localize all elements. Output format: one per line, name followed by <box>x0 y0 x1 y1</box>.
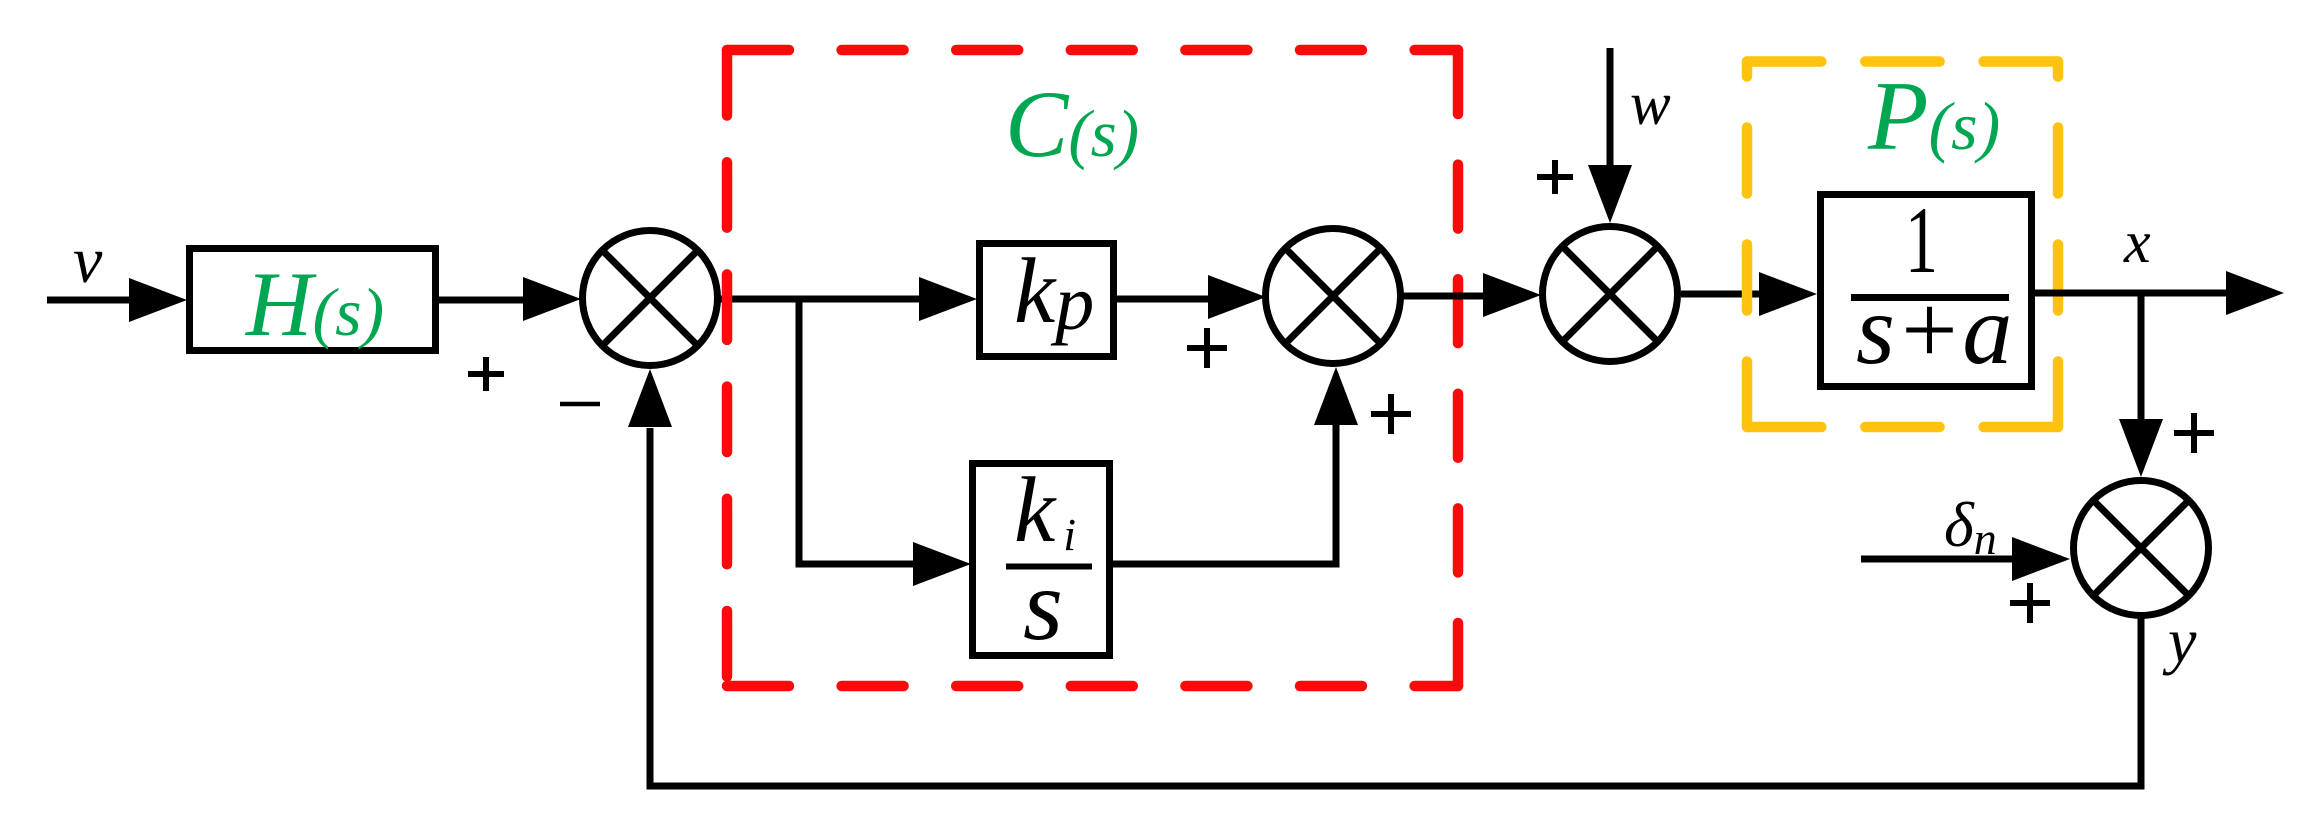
arrowhead into S2 left <box>1208 275 1266 319</box>
wire kp to sum S2 <box>1117 296 1208 303</box>
svg-text:x: x <box>2123 209 2151 275</box>
arrowhead into H(s) <box>129 278 187 322</box>
plus sign at S4 left input <box>2010 583 2050 623</box>
minus sign at S1 feedback input <box>560 402 600 407</box>
svg-text:s: s <box>1023 549 1063 662</box>
svg-text:δn: δn <box>1944 489 1997 564</box>
plus sign at S1 input <box>468 357 504 391</box>
plus sign at S2 bottom input <box>1371 394 1411 434</box>
wire ki to sum S2 bottom <box>1112 424 1336 564</box>
svg-text:ki: ki <box>1014 459 1076 562</box>
plus sign at S3 top input <box>1537 160 1573 194</box>
wire v input <box>47 297 135 304</box>
arrowhead feedback into S1 bottom <box>628 369 672 427</box>
wire noise input δn <box>1861 556 2016 563</box>
arrowhead into ki <box>913 542 971 586</box>
controller dashed box C(s) red <box>727 50 1458 686</box>
svg-text:v: v <box>73 224 103 297</box>
wire branch x down to S4 <box>2138 293 2145 424</box>
wire H(s) to sum S1 <box>439 297 527 304</box>
sum S3 <box>1543 227 1678 362</box>
svg-text:y: y <box>2162 605 2197 676</box>
wire branch down to ki <box>799 299 919 564</box>
arrowhead into S2 bottom <box>1314 367 1358 425</box>
svg-text:H(s): H(s) <box>245 253 384 355</box>
svg-text:w: w <box>1630 71 1671 138</box>
wire S2 to sum S3 <box>1400 293 1487 300</box>
svg-text:kp: kp <box>1014 240 1094 346</box>
wire feedback y from S4 to S1 <box>650 428 2141 786</box>
plus sign at S4 top input <box>2174 413 2214 453</box>
svg-text:C(s): C(s) <box>1005 71 1139 177</box>
wire plant output x <box>2035 290 2232 297</box>
wire w disturbance input <box>1607 48 1614 170</box>
sum S2 <box>1266 229 1401 364</box>
arrowhead into plant block <box>1759 272 1817 316</box>
wire S1 to kp with branch node <box>717 296 922 303</box>
block ki/s <box>973 459 1110 662</box>
arrowhead output x <box>2226 271 2284 315</box>
block H1 H(s) <box>190 249 436 356</box>
svg-text:P(s): P(s) <box>1867 62 2000 171</box>
sum S1 <box>583 231 718 366</box>
block P1 1/(s+a) <box>1821 187 2032 387</box>
arrowhead into S3 left <box>1483 273 1541 317</box>
arrowhead into kp <box>919 277 977 321</box>
plant dashed box P(s) yellow <box>1747 62 2058 428</box>
wire S3 to plant block <box>1681 291 1763 298</box>
arrowhead w into S3 top <box>1588 165 1632 223</box>
svg-text:s+a: s+a <box>1856 274 2012 385</box>
arrowhead δn into S4 left <box>2012 537 2070 581</box>
sum S4 <box>2074 481 2209 616</box>
arrowhead into sum S1 <box>523 277 581 321</box>
arrowhead into S4 top <box>2119 419 2163 477</box>
block kp <box>980 240 1114 357</box>
plus sign at S2 left input <box>1187 328 1227 368</box>
